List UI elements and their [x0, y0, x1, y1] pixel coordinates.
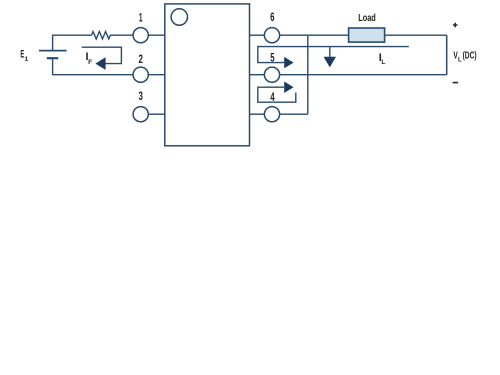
wire pin5 return rail [280, 74, 447, 76]
pin 4 terminal [264, 107, 279, 122]
arrowhead 4 [284, 82, 293, 93]
svg-text:(DC): (DC) [463, 51, 477, 62]
pin 3 terminal [133, 107, 148, 122]
wire pin3 to IC [148, 113, 165, 115]
current loop 4 [258, 87, 296, 102]
wire battery top vertical [52, 35, 54, 50]
wire pin1 to IC [148, 34, 165, 36]
wire IC to pin 6 [250, 34, 265, 36]
wire battery to pin 2 [52, 74, 133, 76]
arrowhead 5 [284, 57, 293, 68]
wire resistor to pin 1 [110, 34, 132, 36]
arrowhead IL [324, 57, 336, 68]
op-amp U1 body [165, 4, 250, 146]
svg-text:3: 3 [139, 89, 144, 103]
svg-text:F: F [88, 59, 92, 66]
pin 1 terminal [133, 28, 148, 43]
svg-text:L: L [458, 57, 462, 63]
wire battery bottom vertical [52, 58, 54, 74]
svg-text:2: 2 [139, 52, 144, 66]
wire pin2 to IC [148, 74, 165, 76]
pin 5 terminal [264, 67, 279, 82]
wire pin6 to load [280, 34, 447, 36]
resistor R [92, 32, 111, 39]
wire battery to resistor [52, 34, 92, 36]
svg-text:1: 1 [139, 10, 143, 24]
current loop 5 / IL line [258, 47, 409, 63]
pin 6 terminal [264, 28, 279, 43]
battery E1 [39, 51, 67, 59]
pin 2 terminal [133, 67, 148, 82]
wire IC to pin 5 [250, 74, 265, 76]
minus terminal [453, 82, 459, 84]
svg-text:5: 5 [270, 51, 275, 65]
arrowhead IF [95, 57, 105, 70]
svg-text:4: 4 [270, 90, 275, 104]
current arrow IL shaft [329, 47, 331, 58]
plus terminal [453, 23, 458, 28]
svg-text:L: L [381, 59, 385, 66]
svg-text:1: 1 [25, 56, 29, 63]
wire right rail [446, 35, 448, 74]
load resistor [349, 28, 385, 42]
svg-text:Load: Load [358, 13, 376, 24]
wire junction vertical [307, 35, 309, 114]
wire pin4 to junction [280, 113, 308, 115]
wire IC to pin 4 [250, 113, 265, 115]
current loop IF [82, 47, 122, 63]
U1 pin-1 indicator circle [171, 9, 187, 25]
svg-text:6: 6 [270, 10, 275, 24]
